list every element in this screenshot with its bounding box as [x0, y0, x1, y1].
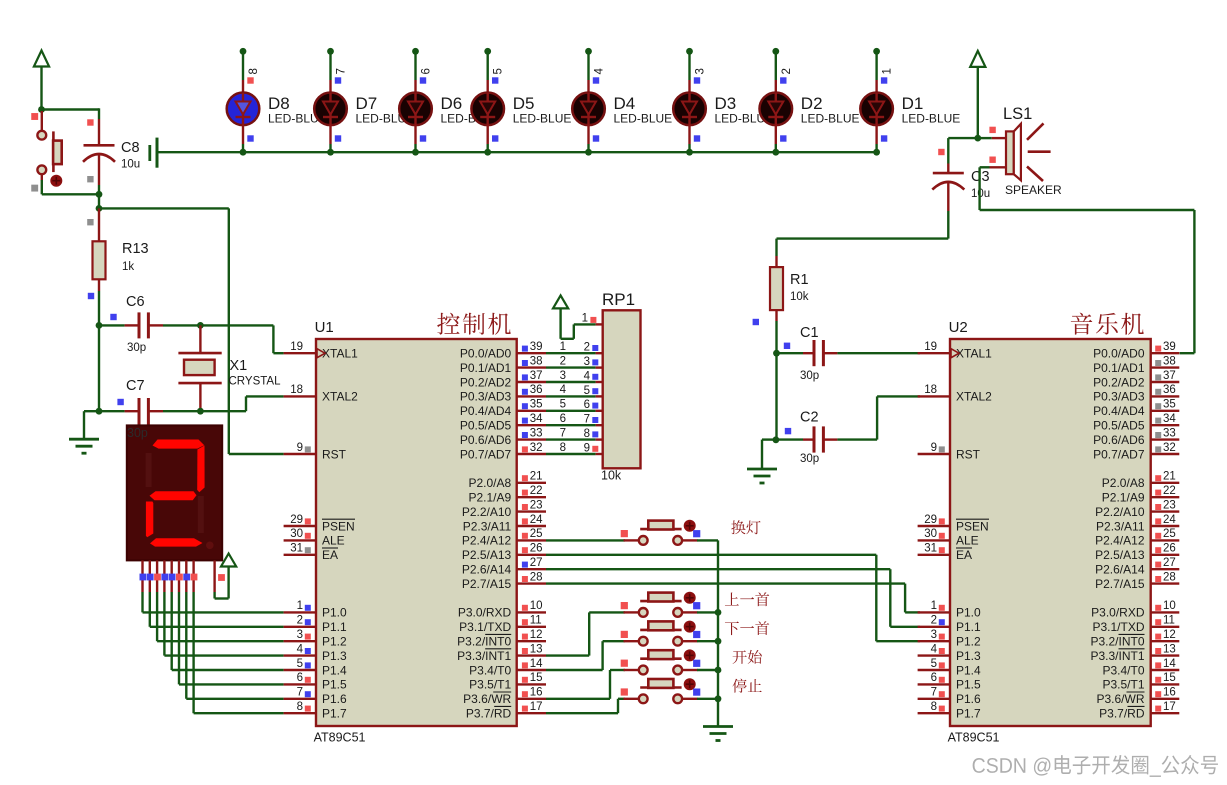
wire U1 P0.5 to RP1 pin 7: [546, 424, 596, 426]
label 30p: [800, 370, 819, 382]
7-segment common anode pin: [213, 560, 215, 592]
svg-text:36: 36: [1163, 384, 1176, 396]
svg-text:P3.7/RD: P3.7/RD: [1099, 707, 1145, 721]
svg-text:RP1: RP1: [602, 290, 635, 309]
U1 pin 16 P3.6/WR: [463, 687, 546, 707]
wire: [42, 174, 99, 194]
svg-text:25: 25: [530, 528, 543, 540]
U1 pin 27 P2.6/A14: [462, 557, 546, 577]
wire LED cathode bus: [157, 151, 877, 153]
svg-text:15: 15: [530, 672, 543, 684]
wire: [775, 144, 777, 152]
U2 pin 11 P3.1/TXD: [1092, 615, 1179, 635]
label D8: [268, 94, 290, 113]
svg-text:28: 28: [1163, 571, 1176, 583]
U1 pin 34 P0.5/AD5: [460, 413, 546, 433]
label CRYSTAL: [229, 376, 282, 388]
wire: [777, 352, 804, 354]
svg-text:24: 24: [530, 514, 543, 526]
wire U1 P3 pin to button 开始: [546, 670, 625, 699]
label D1: [902, 94, 924, 113]
marker: [87, 119, 93, 125]
svg-text:X1: X1: [230, 358, 248, 374]
svg-text:P1.1: P1.1: [322, 620, 347, 634]
marker: [785, 428, 791, 434]
label 控制机: [437, 313, 511, 335]
svg-text:P2.5/A13: P2.5/A13: [462, 548, 512, 562]
svg-text:P2.4/A12: P2.4/A12: [1095, 534, 1145, 548]
U1 pin 29 PSEN: [284, 514, 355, 534]
svg-text:3: 3: [584, 356, 590, 368]
svg-text:28: 28: [530, 571, 543, 583]
marker: [780, 135, 786, 141]
svg-text:C2: C2: [800, 410, 819, 426]
capacitor C7: [125, 398, 163, 425]
marker: [694, 77, 700, 83]
svg-text:6: 6: [931, 672, 937, 684]
svg-text:1: 1: [582, 313, 588, 325]
label pin 6: [421, 68, 433, 74]
svg-text:P1.2: P1.2: [956, 635, 981, 649]
wire U1 P3 pin to button 下一首: [546, 641, 625, 670]
svg-text:12: 12: [1163, 629, 1176, 641]
wire U1 P0.4 to RP1 pin 6: [546, 410, 596, 412]
wire segment 2 to U1 P1.1: [150, 592, 284, 627]
op-amp/IC U2 AT89C51 body: [950, 339, 1151, 726]
svg-text:P0.4/AD4: P0.4/AD4: [460, 404, 512, 418]
marker: [110, 314, 116, 320]
svg-text:19: 19: [924, 341, 937, 353]
svg-text:AT89C51: AT89C51: [314, 731, 366, 745]
U1 pin 38 P0.1/AD1: [460, 355, 546, 375]
U2 pin 26 P2.5/A13: [1095, 543, 1179, 563]
label D4: [614, 94, 636, 113]
svg-text:P2.5/A13: P2.5/A13: [1095, 548, 1145, 562]
RP1 pin 4: [584, 370, 603, 382]
svg-text:33: 33: [1163, 427, 1176, 439]
label net 4: [560, 384, 567, 396]
U1 pin 7 P1.6: [284, 687, 347, 707]
label LED-BLUE: [614, 112, 673, 126]
label RP1: [602, 290, 635, 309]
marker: [88, 293, 94, 299]
svg-text:7: 7: [297, 687, 303, 699]
wire: [84, 411, 99, 439]
wire segment 6 to U1 P1.5: [179, 592, 284, 684]
svg-text:P1.6: P1.6: [322, 692, 347, 706]
wire: [414, 144, 416, 152]
U1 pin 3 P1.2: [284, 629, 347, 649]
svg-text:8: 8: [560, 442, 566, 454]
label 1k: [122, 261, 134, 273]
svg-text:C7: C7: [126, 378, 145, 394]
label 10u: [121, 159, 140, 171]
U2 pin 4 P1.3: [918, 643, 981, 663]
svg-text:32: 32: [1163, 442, 1176, 454]
svg-text:R1: R1: [790, 272, 809, 288]
svg-text:P2.3/A11: P2.3/A11: [1096, 519, 1145, 533]
svg-text:10k: 10k: [790, 291, 809, 303]
svg-text:C8: C8: [121, 140, 140, 156]
svg-text:D1: D1: [902, 94, 924, 113]
svg-text:C1: C1: [800, 325, 819, 341]
wire: [697, 669, 718, 671]
svg-text:P1.5: P1.5: [956, 678, 981, 692]
svg-text:17: 17: [530, 701, 543, 713]
svg-text:4: 4: [584, 370, 591, 382]
wire U1 P0.0 to RP1 pin 2: [546, 352, 596, 354]
U2 pin 9 RST: [918, 442, 981, 462]
svg-text:D6: D6: [441, 94, 463, 113]
wire: [98, 108, 100, 119]
label LS1: [1003, 105, 1032, 123]
svg-text:39: 39: [1163, 341, 1176, 353]
label R1: [790, 272, 809, 288]
label pin 7: [336, 68, 348, 74]
LED D5 LED-BLUE: [471, 80, 504, 144]
label C1: [800, 325, 819, 341]
svg-text:6: 6: [584, 399, 590, 411]
svg-text:P0.5/AD5: P0.5/AD5: [1093, 419, 1145, 433]
wire: [561, 324, 596, 338]
label C7: [126, 378, 145, 394]
resistor pack RP1 body: [603, 310, 641, 468]
U2 pin 39 P0.0/AD0: [1093, 341, 1179, 361]
U2 pin 25 P2.4/A12: [1095, 528, 1179, 548]
U1 pin 37 P0.2/AD2: [460, 370, 546, 390]
push button 停止: [624, 678, 698, 703]
svg-text:7: 7: [931, 687, 937, 699]
push button SW1: [37, 111, 62, 187]
speaker LS1: [990, 123, 1051, 181]
svg-text:11: 11: [530, 615, 542, 627]
node LED D7 anode terminal: [327, 48, 334, 55]
push button 下一首: [624, 621, 698, 646]
svg-text:P3.3/INT1: P3.3/INT1: [457, 649, 511, 663]
wire: [42, 108, 100, 110]
wire: [200, 396, 283, 411]
svg-text:4: 4: [297, 643, 304, 655]
svg-text:25: 25: [1163, 528, 1176, 540]
label LED-BLUE: [801, 112, 860, 126]
LED D2 LED-BLUE: [760, 80, 793, 144]
wire: [215, 592, 229, 599]
svg-text:LED-BLUE: LED-BLUE: [902, 112, 961, 126]
svg-text:P2.1/A9: P2.1/A9: [468, 491, 511, 505]
svg-text:18: 18: [290, 384, 303, 396]
wire segment 4 to U1 P1.3: [164, 592, 283, 656]
svg-text:32: 32: [530, 442, 543, 454]
wire: [697, 540, 718, 726]
U1 pin 24 P2.3/A11: [463, 514, 546, 534]
svg-text:8: 8: [248, 68, 260, 74]
label net 1: [560, 341, 566, 353]
label C8: [121, 140, 140, 156]
wire U1 P0.6 to RP1 pin 8: [546, 438, 596, 440]
U2 pin 28 P2.7/A15: [1095, 571, 1179, 591]
svg-text:12: 12: [530, 629, 543, 641]
svg-text:P0.3/AD3: P0.3/AD3: [1093, 390, 1145, 404]
svg-text:31: 31: [924, 543, 937, 555]
svg-text:33: 33: [530, 427, 543, 439]
capacitor C6: [125, 312, 163, 338]
push button 换灯: [624, 520, 698, 545]
svg-text:P1.4: P1.4: [956, 663, 981, 677]
svg-text:4: 4: [594, 68, 606, 75]
wire: [414, 51, 416, 80]
svg-text:37: 37: [530, 370, 543, 382]
svg-text:P1.7: P1.7: [956, 707, 981, 721]
label pin 4: [594, 68, 606, 75]
svg-text:SPEAKER: SPEAKER: [1005, 183, 1062, 197]
svg-text:3: 3: [560, 370, 566, 382]
svg-text:P1.2: P1.2: [322, 635, 347, 649]
svg-text:P3.1/TXD: P3.1/TXD: [459, 620, 511, 634]
svg-text:1: 1: [931, 600, 937, 612]
svg-text:1: 1: [297, 600, 303, 612]
node junction: [715, 609, 722, 616]
svg-text:P1.0: P1.0: [956, 606, 981, 620]
node junction C7: [96, 408, 103, 415]
svg-text:5: 5: [493, 68, 505, 74]
svg-text:9: 9: [584, 442, 590, 454]
svg-text:39: 39: [530, 341, 543, 353]
wire RST net vertical: [229, 208, 284, 454]
node LED D1 anode terminal: [873, 48, 880, 55]
svg-text:LED-BLUE: LED-BLUE: [614, 112, 673, 126]
label AT89C51: [314, 731, 366, 745]
U1 pin 13 P3.3/INT1: [457, 643, 546, 663]
svg-text:6: 6: [421, 68, 433, 74]
label 下一首: [725, 621, 769, 635]
label 30p: [800, 453, 819, 465]
label SPEAKER: [1005, 183, 1062, 197]
svg-text:XTAL1: XTAL1: [956, 347, 992, 361]
node junction bus: [873, 149, 880, 156]
power flag VCC top-left: [34, 51, 49, 110]
markers: [621, 530, 701, 537]
U1 pin 28 P2.7/A15: [462, 571, 546, 591]
node junction bus: [412, 149, 419, 156]
svg-text:P2.2/A10: P2.2/A10: [1095, 505, 1145, 519]
label C3: [971, 169, 990, 185]
U2 pin 8 P1.7: [918, 701, 981, 721]
node LED D3 anode terminal: [686, 48, 693, 55]
wire: [98, 291, 100, 325]
svg-text:LS1: LS1: [1003, 105, 1032, 123]
svg-text:22: 22: [1163, 485, 1176, 497]
U1 pin 11 P3.1/TXD: [459, 615, 546, 635]
svg-text:7: 7: [336, 68, 348, 74]
U2 pin 37 P0.2/AD2: [1093, 370, 1179, 390]
marker: [420, 135, 426, 141]
wire: [242, 51, 244, 80]
svg-text:P1.6: P1.6: [956, 692, 981, 706]
markers: [621, 660, 701, 667]
label pin 5: [493, 68, 505, 74]
wire: [775, 321, 777, 353]
svg-text:P3.2/INT0: P3.2/INT0: [1090, 635, 1144, 649]
RP1 pin 3: [584, 356, 603, 368]
svg-text:29: 29: [290, 514, 303, 526]
label 停止: [733, 679, 762, 693]
svg-text:34: 34: [530, 413, 543, 425]
svg-text:27: 27: [530, 557, 543, 569]
svg-text:8: 8: [931, 701, 937, 713]
label 开始: [733, 650, 762, 664]
node junction bus: [327, 149, 334, 156]
marker: [420, 77, 426, 83]
U1 pin 26 P2.5/A13: [462, 543, 546, 563]
svg-text:2: 2: [297, 615, 303, 627]
svg-text:P0.6/AD6: P0.6/AD6: [1093, 433, 1145, 447]
marker: [881, 77, 887, 83]
marker: [753, 319, 759, 325]
marker: [247, 135, 253, 141]
svg-text:15: 15: [1163, 672, 1176, 684]
svg-text:37: 37: [1163, 370, 1176, 382]
svg-text:31: 31: [290, 543, 303, 555]
svg-text:D8: D8: [268, 94, 290, 113]
wire U1 P0.2 to RP1 pin 4: [546, 381, 596, 383]
svg-text:30p: 30p: [127, 426, 148, 440]
wire: [697, 611, 718, 613]
svg-text:P2.6/A14: P2.6/A14: [1095, 563, 1145, 577]
label D6: [441, 94, 463, 113]
power flag speaker: [970, 51, 985, 138]
U2 pin 10 P3.0/RXD: [1091, 600, 1179, 620]
svg-text:P2.0/A8: P2.0/A8: [468, 476, 511, 490]
svg-text:34: 34: [1163, 413, 1176, 425]
node junction: [715, 638, 722, 645]
svg-text:21: 21: [1163, 471, 1176, 483]
svg-text:1k: 1k: [122, 261, 134, 273]
svg-text:10: 10: [1163, 600, 1176, 612]
svg-text:16: 16: [530, 687, 543, 699]
LED D3 LED-BLUE: [673, 80, 706, 144]
label LED-BLUE: [513, 112, 572, 126]
capacitor C8: [83, 119, 115, 185]
wire: [487, 51, 489, 80]
U2 pin 32 P0.7/AD7: [1093, 442, 1179, 462]
wire: [200, 325, 283, 353]
svg-text:6: 6: [297, 672, 303, 684]
svg-text:3: 3: [695, 68, 707, 74]
svg-text:RST: RST: [322, 447, 347, 461]
U2 pin 1 P1.0: [918, 600, 981, 620]
U2 pin 17 P3.7/RD: [1099, 701, 1179, 721]
ground C2: [747, 469, 777, 483]
svg-text:P0.2/AD2: P0.2/AD2: [1093, 375, 1145, 389]
node junction C6-X1: [197, 322, 204, 329]
svg-text:5: 5: [297, 658, 303, 670]
node LED D6 anode terminal: [412, 48, 419, 55]
label LED-BLUE: [902, 112, 961, 126]
markers: [621, 602, 701, 609]
svg-text:3: 3: [297, 629, 303, 641]
marker: [938, 149, 944, 155]
svg-text:19: 19: [290, 341, 303, 353]
wire U1 P2.5 to U2 P1.2: [546, 555, 920, 641]
marker: [881, 135, 887, 141]
svg-text:11: 11: [1163, 615, 1175, 627]
U2 pin 21 P2.0/A8: [1102, 471, 1180, 491]
U2 pin 38 P0.1/AD1: [1093, 355, 1179, 375]
marker: [335, 135, 341, 141]
U1 pin 4 P1.3: [284, 643, 347, 663]
node junction bus: [585, 149, 592, 156]
RP1 pin 8: [584, 428, 603, 440]
svg-text:2: 2: [781, 68, 793, 74]
power flag RP1: [553, 295, 568, 338]
svg-text:4: 4: [931, 643, 938, 655]
node junction C2: [773, 436, 780, 443]
wire: [99, 207, 229, 209]
svg-text:23: 23: [530, 499, 543, 511]
svg-text:P0.3/AD3: P0.3/AD3: [460, 390, 512, 404]
wire: [688, 51, 690, 80]
U2 pin 35 P0.4/AD4: [1093, 399, 1179, 419]
wire C2 to U2 XTAL2: [837, 396, 920, 439]
U1 pin 30 ALE: [284, 528, 345, 548]
svg-text:5: 5: [931, 658, 937, 670]
svg-text:10: 10: [530, 600, 543, 612]
svg-text:30p: 30p: [800, 370, 819, 382]
node junction bus: [686, 149, 693, 156]
node junction C8-bottom: [96, 191, 103, 198]
svg-text:R13: R13: [122, 241, 149, 257]
svg-text:38: 38: [1163, 355, 1176, 367]
wire U1 P0.3 to RP1 pin 5: [546, 395, 596, 397]
resistor R13: [93, 208, 106, 291]
label C6: [126, 294, 145, 310]
wire: [978, 137, 992, 139]
svg-text:P2.4/A12: P2.4/A12: [462, 534, 512, 548]
marker: [117, 399, 123, 405]
wire: [948, 138, 978, 163]
svg-text:EA: EA: [322, 548, 338, 562]
crystal X1: [178, 325, 221, 411]
svg-text:PSEN: PSEN: [322, 519, 355, 533]
svg-text:P1.3: P1.3: [322, 649, 347, 663]
node junction R13-C6: [96, 322, 103, 329]
watermark CSDN 电子开发圈: [973, 755, 1218, 777]
U1 pin 35 P0.4/AD4: [460, 399, 546, 419]
U2 pin 34 P0.5/AD5: [1093, 413, 1179, 433]
push button 开始: [624, 649, 698, 674]
LED D4 LED-BLUE: [572, 80, 605, 144]
marker: [492, 135, 498, 141]
svg-text:P0.0/AD0: P0.0/AD0: [460, 347, 512, 361]
wire C3 to R1: [777, 211, 949, 256]
svg-text:P0.2/AD2: P0.2/AD2: [460, 375, 512, 389]
svg-text:ALE: ALE: [322, 534, 345, 548]
svg-text:30p: 30p: [127, 342, 146, 354]
markers: [140, 574, 198, 581]
svg-text:18: 18: [924, 384, 937, 396]
wire: [775, 51, 777, 80]
wire: [98, 185, 100, 208]
LED D8 LED-BLUE: [227, 80, 260, 144]
U1 pin 5 P1.4: [284, 658, 347, 678]
svg-text:35: 35: [1163, 399, 1176, 411]
svg-text:CRYSTAL: CRYSTAL: [229, 376, 282, 388]
node junction: [715, 667, 722, 674]
U2 pin 19 XTAL1: [918, 341, 993, 361]
svg-text:P3.4/T0: P3.4/T0: [469, 663, 511, 677]
svg-text:30p: 30p: [800, 453, 819, 465]
label net 3: [560, 370, 566, 382]
